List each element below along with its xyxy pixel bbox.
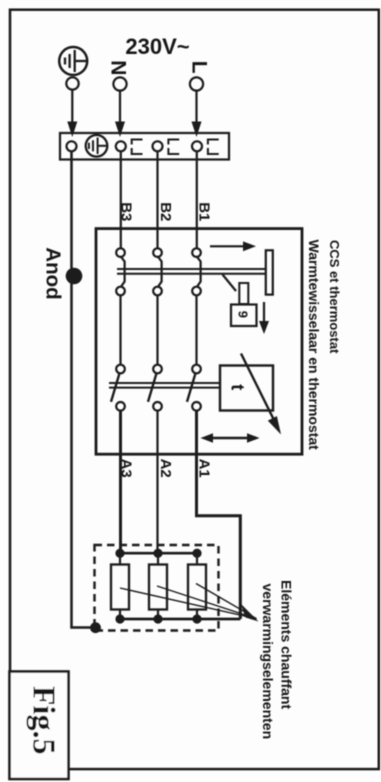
contact glyph way3: [132, 140, 143, 155]
wire A1 down and around: [197, 411, 241, 619]
wire B3: [120, 151, 122, 248]
node way1 L: [192, 141, 202, 151]
node bottom bus dot 3: [192, 614, 201, 623]
pointer arrowhead: [241, 604, 259, 622]
node earth to enclosure dot: [90, 622, 101, 633]
trip stem: [239, 283, 248, 304]
svg-text:A2: A2: [157, 459, 174, 478]
node bank1 top contacts: [116, 248, 125, 257]
pointer line to element 2: [157, 586, 257, 619]
trip lever: [223, 275, 237, 292]
switch blade bank2 pole2: [148, 373, 157, 402]
linkage bar CCS: [117, 269, 266, 274]
svg-text:Fig.5: Fig.5: [27, 686, 63, 754]
wire B1: [196, 151, 198, 248]
wire element R3 stub top: [196, 553, 198, 564]
svg-text:CCS et thermostat: CCS et thermostat: [327, 240, 342, 354]
switch blade bank1 pole2: [158, 257, 162, 287]
wire N to block: [119, 91, 121, 124]
node top bus dot 2: [153, 549, 162, 558]
wire element R1 stub bottom: [119, 610, 121, 620]
wire bottom bus: [120, 618, 241, 621]
pointer line to element 3: [196, 584, 257, 619]
earth symbol in block: [86, 135, 108, 157]
thermostat box t: [220, 366, 273, 411]
arrow down trip: [259, 302, 269, 334]
terminal block X1: [60, 133, 229, 160]
node bank2 top contacts: [116, 365, 125, 374]
wire element R2 stub top: [157, 553, 159, 564]
wire B2: [156, 151, 158, 248]
node bottom bus dot 1: [115, 614, 124, 623]
arrow adjustment diagonal: [241, 354, 281, 435]
heating element R1: [111, 565, 129, 610]
figure label box: [10, 672, 69, 780]
node bank1 bottom contacts: [116, 287, 125, 296]
wire element R2 stub bottom: [157, 610, 159, 620]
switch blade bank1 pole1: [197, 257, 201, 287]
svg-text:N: N: [106, 60, 129, 75]
svg-text:B2: B2: [157, 202, 174, 221]
wire top bus: [120, 552, 198, 555]
svg-text:B1: B1: [195, 202, 212, 221]
wire pole1 mid: [195, 295, 197, 364]
svg-text:Eléments chauffant: Eléments chauffant: [279, 580, 295, 709]
wire pole3 mid: [119, 295, 121, 364]
arrow trip direction: [210, 241, 256, 251]
node way2: [153, 141, 163, 151]
svg-text:Anod: Anod: [42, 247, 65, 299]
wire A3 down: [119, 411, 122, 554]
svg-text:9: 9: [236, 311, 251, 318]
svg-text:t: t: [228, 384, 248, 390]
svg-text:Warmtewisselaar en thermostat: Warmtewisselaar en thermostat: [306, 240, 322, 451]
node way3 N: [116, 141, 126, 151]
CCS sensor box 9: [231, 305, 257, 327]
wire element R3 stub bottom: [196, 610, 198, 620]
svg-text:230V~: 230V~: [125, 34, 189, 59]
node PE terminal circle: [66, 77, 78, 89]
pointer line to element 1: [120, 588, 257, 619]
node anode junction dot: [66, 268, 83, 285]
node way1 earth: [67, 141, 77, 151]
node top bus dot 3: [192, 549, 201, 558]
node L terminal circle: [190, 77, 203, 90]
wire element R1 stub top: [119, 553, 121, 564]
wire A2 down: [156, 411, 158, 554]
arrow into block L: [192, 122, 202, 138]
actuator plate: [266, 250, 273, 294]
thermostat unit box U1: [96, 229, 302, 455]
linkage bar thermostat: [109, 383, 220, 388]
wire L to block: [195, 91, 197, 124]
arrow into block N: [115, 122, 125, 138]
heating element R2: [149, 565, 167, 610]
svg-text:B3: B3: [117, 202, 134, 221]
switch blade bank1 pole3: [121, 257, 125, 287]
node top bus dot 1: [115, 549, 124, 558]
switch blade bank2 pole1: [187, 373, 196, 402]
arrow into block PE: [67, 122, 77, 138]
wire pole2 mid: [156, 295, 158, 364]
svg-text:L: L: [188, 61, 211, 74]
contact glyph way1: [208, 140, 219, 155]
arrow double-headed travel: [201, 433, 260, 443]
heating element R3: [188, 565, 206, 610]
heating elements enclosure dashed: [95, 545, 219, 631]
node bottom bus dot 2: [153, 614, 162, 623]
wire earth line down: [72, 151, 95, 627]
wire PE to block: [71, 90, 73, 124]
switch blade bank2 pole3: [111, 373, 120, 402]
contact glyph way2: [168, 140, 179, 155]
node N terminal circle: [113, 77, 126, 90]
earth terminal symbol PE: [59, 47, 87, 75]
svg-text:verwarmingselementen: verwarmingselementen: [260, 584, 276, 740]
node bank2 bottom contacts: [116, 402, 125, 411]
